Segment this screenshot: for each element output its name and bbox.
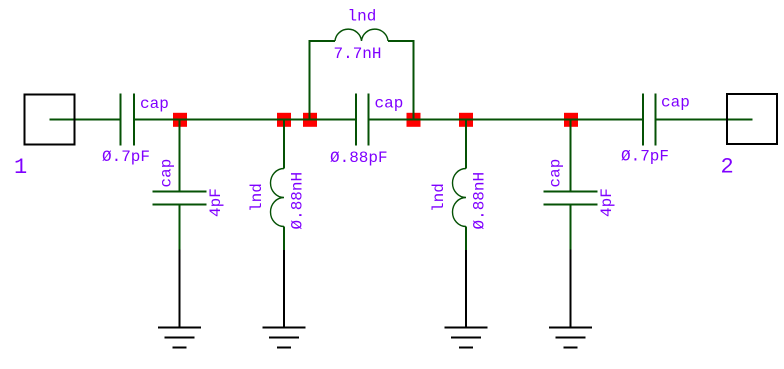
svg-text:Ø.88pF: Ø.88pF — [330, 149, 388, 167]
svg-text:Ø.88nH: Ø.88nH — [471, 172, 489, 230]
svg-text:lnd: lnd — [348, 8, 377, 26]
svg-text:cap: cap — [158, 159, 176, 188]
svg-text:lnd: lnd — [248, 183, 266, 212]
svg-text:4pF: 4pF — [598, 188, 616, 217]
svg-text:cap: cap — [375, 95, 404, 113]
svg-text:cap: cap — [661, 94, 690, 112]
svg-text:7.7nH: 7.7nH — [334, 45, 382, 63]
svg-text:Ø.88nH: Ø.88nH — [289, 172, 307, 230]
svg-text:2: 2 — [721, 155, 734, 180]
svg-text:cap: cap — [547, 159, 565, 188]
svg-text:lnd: lnd — [430, 183, 448, 212]
svg-text:1: 1 — [14, 155, 27, 180]
svg-text:4pF: 4pF — [207, 188, 225, 217]
svg-text:Ø.7pF: Ø.7pF — [102, 148, 150, 166]
svg-text:cap: cap — [140, 95, 169, 113]
svg-text:Ø.7pF: Ø.7pF — [621, 148, 669, 166]
